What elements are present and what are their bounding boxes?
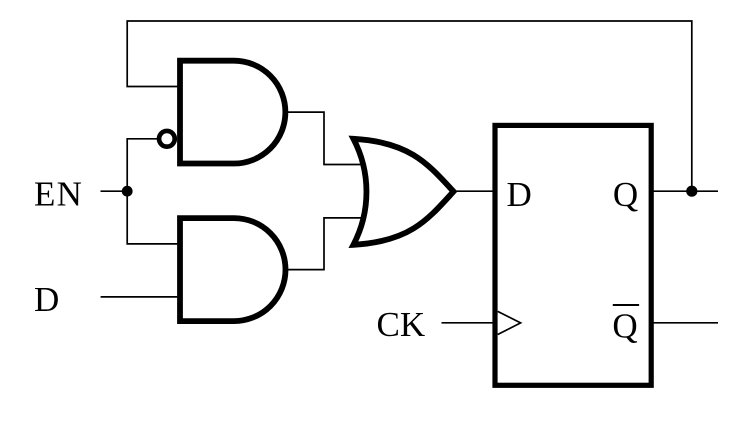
wire CK input (442, 322, 496, 324)
AND gate G1 (top) (180, 61, 285, 164)
wire EN input stub (101, 190, 128, 192)
wire Q-bar output (651, 322, 718, 324)
wire AND2 output to OR bottom input (286, 218, 366, 270)
svg-text:CK: CK (377, 305, 426, 344)
svg-text:D: D (507, 175, 532, 214)
AND gate G2 (bottom) (180, 218, 286, 321)
svg-text:EN: EN (34, 174, 83, 213)
wire OR output to flip-flop D input (452, 190, 495, 192)
OR gate G3 (353, 139, 453, 245)
inverter bubble on G1 lower input (159, 131, 175, 147)
wire EN vertical to inverter bubble and lower AND input (127, 139, 180, 244)
node Q feedback junction (686, 186, 697, 197)
overline of Q-bar (613, 304, 639, 306)
svg-text:Q: Q (612, 307, 637, 346)
D flip-flop U1 body (495, 125, 651, 385)
wire D input (101, 296, 180, 298)
clock edge triangle on U1 (498, 311, 521, 334)
svg-text:D: D (34, 280, 59, 319)
wire feedback from Q to top AND input (top rail) (127, 21, 692, 191)
wire Q output (651, 190, 718, 192)
wire AND1 output to OR top input (285, 112, 365, 164)
svg-text:Q: Q (613, 175, 638, 214)
node EN junction (122, 186, 133, 197)
